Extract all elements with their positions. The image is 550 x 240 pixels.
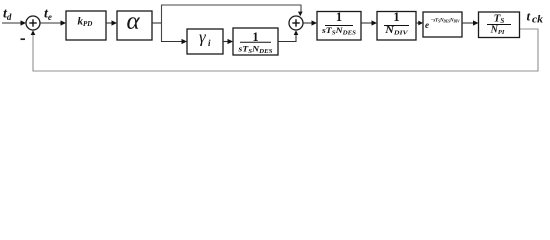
svg-text:1: 1 — [336, 10, 342, 24]
svg-text:ck: ck — [532, 15, 543, 26]
svg-text:e: e — [425, 20, 429, 30]
svg-text:α: α — [127, 8, 141, 35]
svg-text:1: 1 — [393, 10, 399, 24]
svg-text:t: t — [527, 9, 531, 24]
svg-text:−sTSNDESNDIV: −sTSNDESNDIV — [431, 19, 461, 24]
